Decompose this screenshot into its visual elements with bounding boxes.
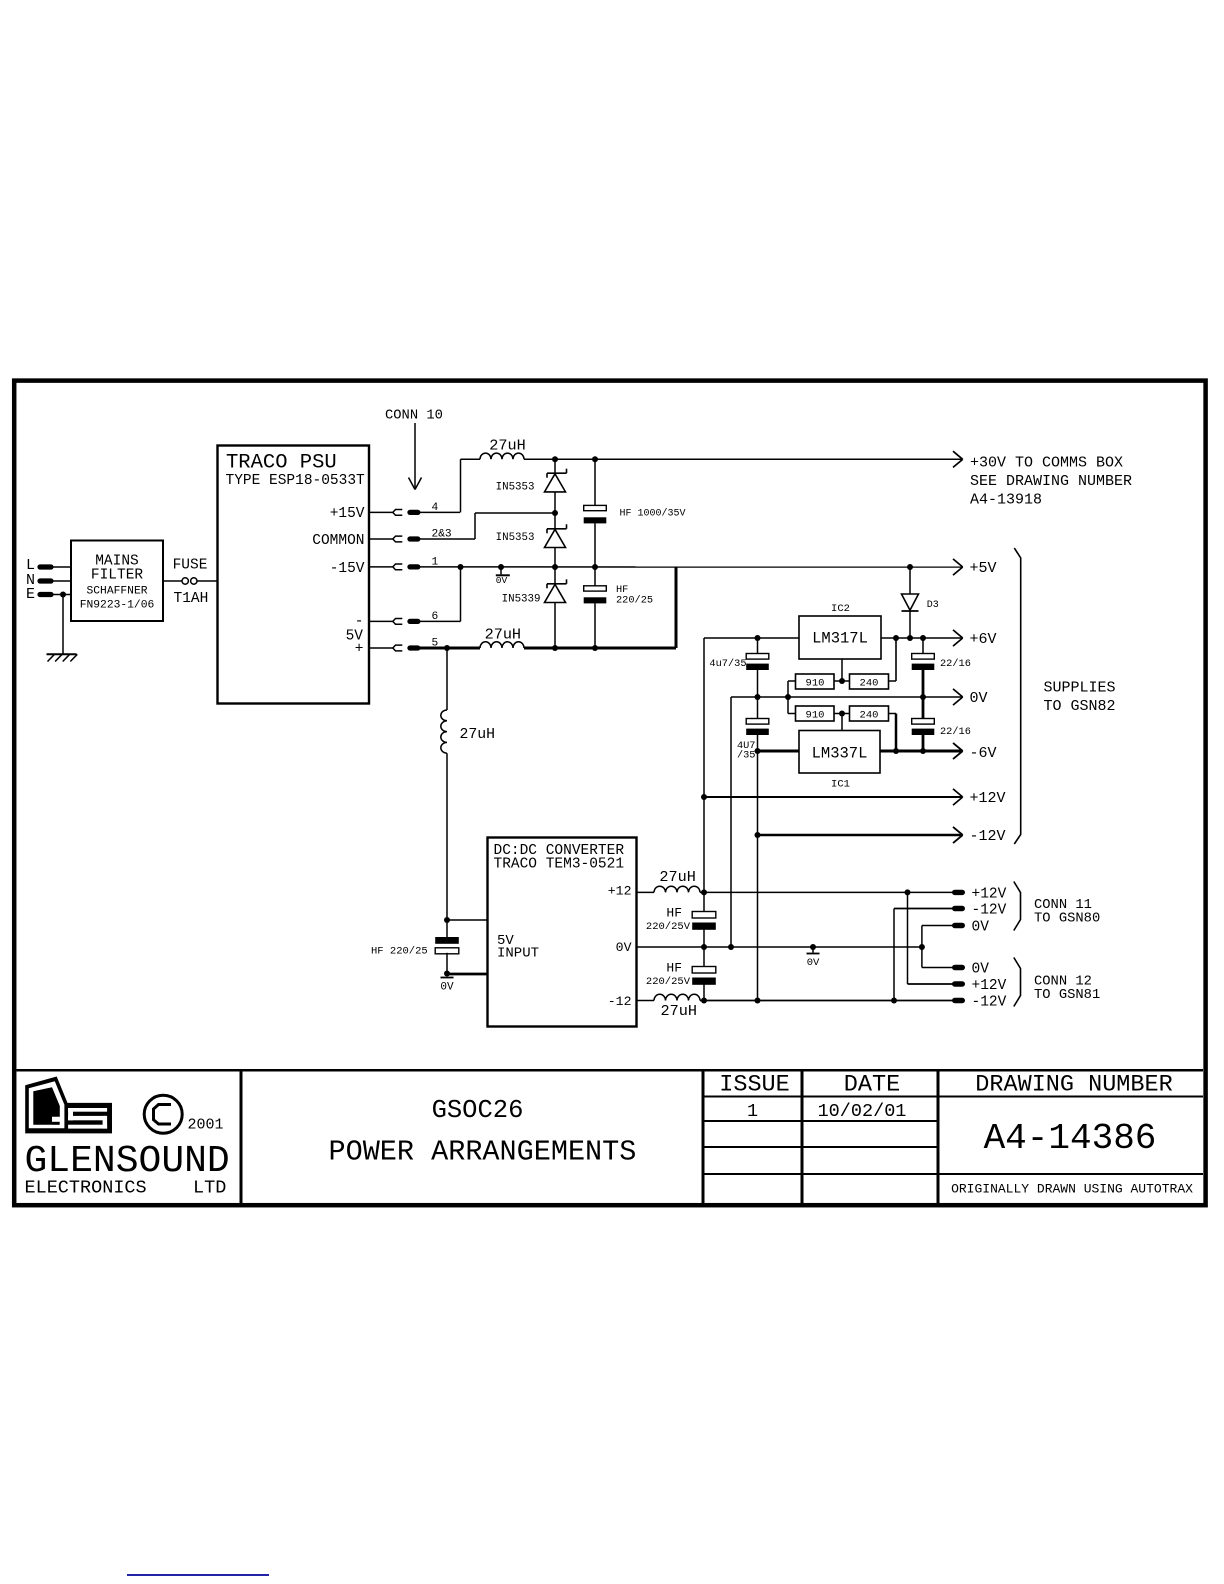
svg-text:240: 240: [860, 677, 879, 689]
svg-text:DRAWING NUMBER: DRAWING NUMBER: [975, 1072, 1172, 1099]
svg-text:-12: -12: [608, 994, 632, 1009]
svg-text:-12V: -12V: [972, 903, 1007, 919]
svg-text:-12V: -12V: [970, 828, 1006, 845]
svg-text:+6V: +6V: [970, 631, 997, 648]
svg-text:+12V: +12V: [972, 887, 1007, 903]
svg-text:+: +: [355, 642, 364, 658]
svg-text:HF 1000/35V: HF 1000/35V: [620, 508, 686, 520]
svg-text:220/25: 220/25: [616, 595, 653, 607]
svg-text:+12: +12: [608, 884, 632, 899]
svg-text:27uH: 27uH: [489, 437, 525, 455]
svg-text:22/16: 22/16: [940, 726, 971, 738]
svg-text:+15V: +15V: [330, 506, 365, 522]
svg-text:FILTER: FILTER: [91, 567, 144, 583]
svg-text:HF: HF: [666, 961, 682, 976]
svg-text:1: 1: [747, 1101, 758, 1122]
svg-text:27uH: 27uH: [659, 868, 695, 886]
svg-text:0V: 0V: [972, 920, 990, 936]
svg-text:220/25V: 220/25V: [646, 976, 691, 988]
svg-text:IN5339: IN5339: [502, 593, 541, 605]
svg-text:INPUT: INPUT: [497, 946, 539, 962]
svg-text:-6V: -6V: [970, 745, 997, 762]
svg-text:IN5353: IN5353: [496, 532, 535, 544]
svg-text:+5V: +5V: [970, 560, 997, 577]
svg-text:27uH: 27uH: [485, 626, 521, 644]
svg-text:10/02/01: 10/02/01: [818, 1101, 907, 1122]
svg-text:4u7/35: 4u7/35: [709, 658, 746, 670]
svg-text:0V: 0V: [440, 982, 454, 994]
svg-text:COMMON: COMMON: [312, 533, 364, 549]
svg-text:LM317L: LM317L: [812, 630, 868, 648]
svg-text:GSOC26: GSOC26: [432, 1096, 524, 1125]
svg-text:FUSE: FUSE: [173, 558, 208, 574]
svg-text:-12V: -12V: [972, 995, 1007, 1011]
svg-text:910: 910: [806, 677, 825, 689]
svg-text:ELECTRONICS: ELECTRONICS: [25, 1178, 147, 1199]
svg-text:HF 220/25: HF 220/25: [371, 946, 428, 958]
svg-text:ISSUE: ISSUE: [719, 1072, 790, 1099]
svg-text:0V: 0V: [616, 940, 632, 955]
svg-text:/35: /35: [737, 750, 756, 762]
svg-text:FN9223-1/06: FN9223-1/06: [80, 599, 155, 611]
svg-text:TO GSN82: TO GSN82: [1044, 698, 1116, 715]
svg-text:+12V: +12V: [970, 790, 1006, 807]
svg-text:SUPPLIES: SUPPLIES: [1044, 680, 1116, 697]
svg-text:SCHAFFNER: SCHAFFNER: [86, 585, 147, 597]
svg-text:-15V: -15V: [330, 561, 365, 577]
svg-text:0V: 0V: [972, 962, 990, 978]
svg-text:T1AH: T1AH: [174, 591, 209, 607]
svg-text:TO GSN80: TO GSN80: [1034, 912, 1100, 927]
svg-text:IC1: IC1: [831, 778, 850, 790]
svg-text:240: 240: [860, 710, 879, 722]
svg-text:220/25V: 220/25V: [646, 921, 691, 933]
svg-text:A4-13918: A4-13918: [970, 492, 1042, 509]
svg-text:A4-14386: A4-14386: [984, 1118, 1157, 1159]
svg-text:D3: D3: [927, 600, 939, 611]
svg-text:POWER ARRANGEMENTS: POWER ARRANGEMENTS: [329, 1136, 637, 1169]
svg-text:27uH: 27uH: [661, 1002, 697, 1020]
svg-text:LM337L: LM337L: [812, 744, 868, 762]
svg-text:+30V TO COMMS BOX: +30V TO COMMS BOX: [970, 455, 1123, 472]
svg-text:2001: 2001: [188, 1117, 224, 1134]
svg-text:TRACO PSU: TRACO PSU: [226, 452, 337, 475]
svg-text:0V: 0V: [807, 957, 820, 969]
svg-text:SEE DRAWING NUMBER: SEE DRAWING NUMBER: [970, 473, 1132, 490]
svg-text:0V: 0V: [970, 690, 988, 707]
svg-text:TRACO TEM3-0521: TRACO TEM3-0521: [494, 857, 625, 873]
svg-text:0V: 0V: [496, 575, 508, 586]
svg-text:LTD: LTD: [193, 1178, 226, 1199]
svg-text:IN5353: IN5353: [496, 482, 535, 494]
svg-text:CONN 10: CONN 10: [385, 409, 443, 424]
svg-text:22/16: 22/16: [940, 658, 971, 670]
svg-text:TO GSN81: TO GSN81: [1034, 988, 1100, 1003]
svg-text:27uH: 27uH: [460, 727, 496, 743]
svg-text:910: 910: [806, 710, 825, 722]
svg-text:E: E: [26, 586, 35, 603]
svg-text:+12V: +12V: [972, 978, 1007, 994]
svg-text:DATE: DATE: [844, 1072, 900, 1099]
svg-text:TYPE ESP18-0533T: TYPE ESP18-0533T: [226, 473, 366, 489]
svg-text:HF: HF: [666, 905, 682, 920]
svg-text:ORIGINALLY DRAWN USING AUTOTRA: ORIGINALLY DRAWN USING AUTOTRAX: [951, 1182, 1193, 1197]
svg-text:IC2: IC2: [831, 603, 850, 615]
